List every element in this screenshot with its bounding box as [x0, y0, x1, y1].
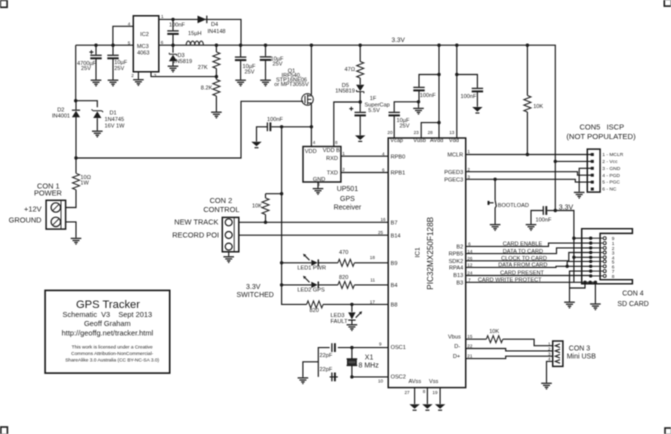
svg-text:1F: 1F [370, 96, 377, 102]
svg-text:27K: 27K [198, 65, 208, 71]
svg-text:B13: B13 [453, 273, 463, 279]
svg-text:NEW TRACK: NEW TRACK [174, 218, 218, 227]
svg-text:22pF: 22pF [320, 353, 333, 359]
svg-text:4: 4 [128, 22, 131, 27]
svg-text:16: 16 [381, 217, 387, 222]
svg-text:CARD WRITE PROTECT: CARD WRITE PROTECT [478, 278, 542, 284]
svg-text:RPB1: RPB1 [391, 171, 406, 177]
svg-text:24: 24 [467, 270, 473, 275]
svg-text:3.3V: 3.3V [392, 37, 406, 44]
svg-text:8 MHz: 8 MHz [359, 363, 380, 370]
svg-text:AVss: AVss [409, 379, 422, 385]
svg-text:B2: B2 [456, 245, 463, 251]
svg-text:UP501: UP501 [337, 186, 359, 193]
svg-text:3 - GND: 3 - GND [602, 166, 620, 172]
svg-text:6: 6 [468, 242, 471, 247]
svg-text:4: 4 [548, 356, 551, 361]
svg-text:1 - MCLR: 1 - MCLR [602, 152, 623, 158]
svg-text:CONTROL: CONTROL [203, 205, 239, 214]
svg-text:2: 2 [131, 73, 134, 78]
svg-text:LED1 PWR: LED1 PWR [297, 265, 326, 271]
svg-text:B3: B3 [456, 280, 463, 286]
svg-text:1: 1 [467, 149, 470, 154]
svg-text:4: 4 [382, 151, 385, 156]
svg-text:RPB5: RPB5 [449, 252, 464, 258]
svg-text:12: 12 [467, 263, 473, 268]
svg-text:DATA FROM CARD: DATA FROM CARD [498, 263, 547, 269]
svg-text:Vbus: Vbus [448, 335, 461, 341]
svg-text:7: 7 [468, 278, 471, 283]
svg-text:2: 2 [342, 167, 345, 172]
svg-text:D+: D+ [453, 354, 460, 360]
svg-text:27: 27 [405, 390, 411, 395]
svg-text:100nF: 100nF [536, 218, 552, 224]
svg-text:Mini USB: Mini USB [567, 353, 597, 360]
svg-text:25V: 25V [81, 66, 91, 72]
svg-text:TXD: TXD [327, 170, 338, 176]
svg-text:8: 8 [335, 140, 338, 145]
svg-text:10K: 10K [533, 104, 543, 110]
svg-text:25: 25 [378, 230, 384, 235]
svg-text:Commons Attribution-NonCommerc: Commons Attribution-NonCommercial- [71, 351, 154, 357]
svg-text:PGEC3: PGEC3 [444, 177, 463, 183]
svg-text:Vcap: Vcap [390, 138, 403, 144]
svg-text:RPA4: RPA4 [449, 266, 463, 272]
svg-text:2 - Vcc: 2 - Vcc [602, 159, 618, 165]
svg-text:1W: 1W [80, 180, 89, 186]
svg-text:ShareAlike 3.0 Australia (CC B: ShareAlike 3.0 Australia (CC BY-NC-SA 3.… [65, 358, 159, 364]
svg-text:B4: B4 [391, 283, 398, 289]
svg-text:4: 4 [313, 140, 316, 145]
svg-text:B9: B9 [391, 261, 398, 267]
svg-text:1N5819: 1N5819 [173, 59, 193, 65]
svg-text:BOOTLOAD: BOOTLOAD [498, 203, 529, 209]
svg-text:PIC32MX250F128B: PIC32MX250F128B [426, 216, 435, 289]
svg-text:IC2: IC2 [140, 32, 149, 38]
svg-text:Receiver: Receiver [334, 205, 362, 212]
svg-text:3: 3 [467, 174, 470, 179]
svg-text:3: 3 [154, 73, 157, 78]
svg-text:1N5819: 1N5819 [335, 88, 355, 94]
svg-text:1: 1 [161, 14, 164, 19]
svg-text:820: 820 [310, 308, 319, 314]
svg-text:PGED3: PGED3 [444, 170, 463, 176]
svg-text:CON5 ISCP: CON5 ISCP [580, 122, 625, 131]
svg-text:X1: X1 [365, 354, 374, 361]
svg-text:4 - PGD: 4 - PGD [602, 173, 620, 179]
svg-text:RXD: RXD [326, 156, 338, 162]
svg-text:GROUND: GROUND [9, 216, 42, 225]
svg-text:VDD B: VDD B [323, 148, 340, 154]
svg-text:OSC2: OSC2 [391, 374, 406, 380]
svg-text:8: 8 [423, 389, 426, 394]
svg-text:D4: D4 [211, 22, 218, 28]
svg-text:B8: B8 [391, 303, 398, 309]
svg-text:23: 23 [414, 130, 420, 135]
svg-text:RPB0: RPB0 [391, 154, 406, 160]
svg-text:4063: 4063 [137, 51, 149, 57]
svg-text:6 - NC: 6 - NC [602, 187, 617, 193]
svg-text:2: 2 [467, 167, 470, 172]
svg-text:POWER: POWER [34, 188, 62, 197]
svg-text:B7: B7 [391, 220, 398, 226]
svg-text:19: 19 [432, 390, 438, 395]
svg-text:820: 820 [339, 275, 348, 281]
svg-text:GND: GND [313, 177, 325, 183]
svg-text:3.3V: 3.3V [559, 205, 574, 212]
svg-text:21: 21 [467, 353, 473, 358]
svg-text:14: 14 [467, 249, 473, 254]
svg-text:8.2K: 8.2K [201, 86, 213, 92]
svg-text:26: 26 [467, 256, 473, 261]
svg-text:22pF: 22pF [320, 367, 333, 373]
svg-text:100nF: 100nF [420, 93, 436, 99]
svg-text:D-: D- [454, 344, 460, 350]
svg-text:CON 3: CON 3 [569, 346, 591, 353]
svg-text:Vusb: Vusb [413, 138, 426, 144]
svg-text:CON 2: CON 2 [210, 196, 233, 205]
svg-text:8: 8 [612, 274, 615, 280]
svg-text:5: 5 [128, 41, 131, 46]
svg-text:18: 18 [370, 255, 376, 260]
svg-text:22: 22 [467, 344, 473, 349]
svg-text:LED2 GPS: LED2 GPS [297, 287, 325, 293]
svg-text:Schematic V3 Sept 2013: Schematic V3 Sept 2013 [63, 310, 153, 319]
svg-text:This work is licensed under a: This work is licensed under a Creative [72, 345, 153, 351]
svg-text:15µH: 15µH [188, 31, 202, 37]
svg-text:6: 6 [382, 168, 385, 173]
svg-text:IC1: IC1 [414, 247, 421, 258]
svg-text:17: 17 [370, 299, 376, 304]
svg-text:GPS: GPS [340, 196, 355, 203]
svg-text:9: 9 [379, 342, 382, 347]
svg-text:Vdd: Vdd [449, 138, 459, 144]
svg-text:10: 10 [378, 378, 384, 383]
svg-text:OSC1: OSC1 [391, 345, 406, 351]
svg-text:5.5V: 5.5V [368, 108, 380, 114]
svg-text:MC3: MC3 [137, 44, 149, 50]
svg-text:AVdd: AVdd [430, 138, 443, 144]
svg-text:VDD: VDD [305, 149, 317, 155]
svg-text:25V: 25V [245, 69, 255, 75]
svg-text:MCLR: MCLR [447, 153, 463, 159]
svg-text:IN4148: IN4148 [208, 29, 226, 35]
svg-text:47Ω: 47Ω [345, 67, 356, 73]
svg-text:Vss: Vss [429, 379, 439, 385]
svg-text:15: 15 [467, 334, 473, 339]
svg-text:CARD PRESENT: CARD PRESENT [500, 271, 544, 277]
svg-text:1N4745: 1N4745 [105, 117, 125, 123]
svg-text:IN4001: IN4001 [52, 113, 70, 119]
svg-text:DATA TO CARD: DATA TO CARD [503, 249, 543, 255]
svg-text:CARD ENABLE: CARD ENABLE [503, 242, 543, 248]
svg-text:SDK2: SDK2 [449, 259, 464, 265]
svg-text:5 - PGC: 5 - PGC [602, 180, 620, 186]
svg-text:http://geoffg.net/tracker.html: http://geoffg.net/tracker.html [62, 329, 154, 338]
svg-text:CLOCK TO CARD: CLOCK TO CARD [501, 256, 547, 262]
svg-text:FAULT: FAULT [331, 319, 349, 325]
svg-text:25V: 25V [273, 62, 283, 68]
svg-text:1: 1 [342, 151, 345, 156]
svg-text:RECORD POI: RECORD POI [172, 231, 219, 240]
svg-text:10K: 10K [252, 204, 262, 210]
svg-text:16V 1W: 16V 1W [105, 124, 126, 130]
svg-text:100nF: 100nF [267, 117, 283, 123]
svg-text:CON 4: CON 4 [622, 291, 644, 298]
svg-text:+12V: +12V [24, 204, 42, 213]
svg-text:3.3V: 3.3V [246, 284, 261, 291]
svg-text:13: 13 [449, 130, 455, 135]
svg-text:20: 20 [387, 130, 393, 135]
svg-text:SD CARD: SD CARD [617, 301, 649, 308]
svg-text:B14: B14 [391, 233, 401, 239]
svg-text:11: 11 [370, 277, 375, 282]
svg-text:100nF: 100nF [169, 22, 185, 28]
svg-text:470: 470 [339, 250, 348, 256]
svg-text:25V: 25V [114, 66, 124, 72]
svg-text:28: 28 [428, 130, 434, 135]
svg-text:6: 6 [161, 40, 164, 45]
svg-text:SWITCHED: SWITCHED [237, 292, 274, 299]
svg-text:or MPT3055V: or MPT3055V [274, 82, 309, 88]
svg-text:Geoff Graham: Geoff Graham [84, 319, 131, 328]
svg-text:(NOT POPULATED): (NOT POPULATED) [566, 132, 636, 141]
svg-text:25V: 25V [400, 123, 410, 129]
svg-text:D1: D1 [110, 111, 117, 117]
svg-text:100nF: 100nF [461, 94, 477, 100]
svg-text:10K: 10K [489, 329, 499, 335]
